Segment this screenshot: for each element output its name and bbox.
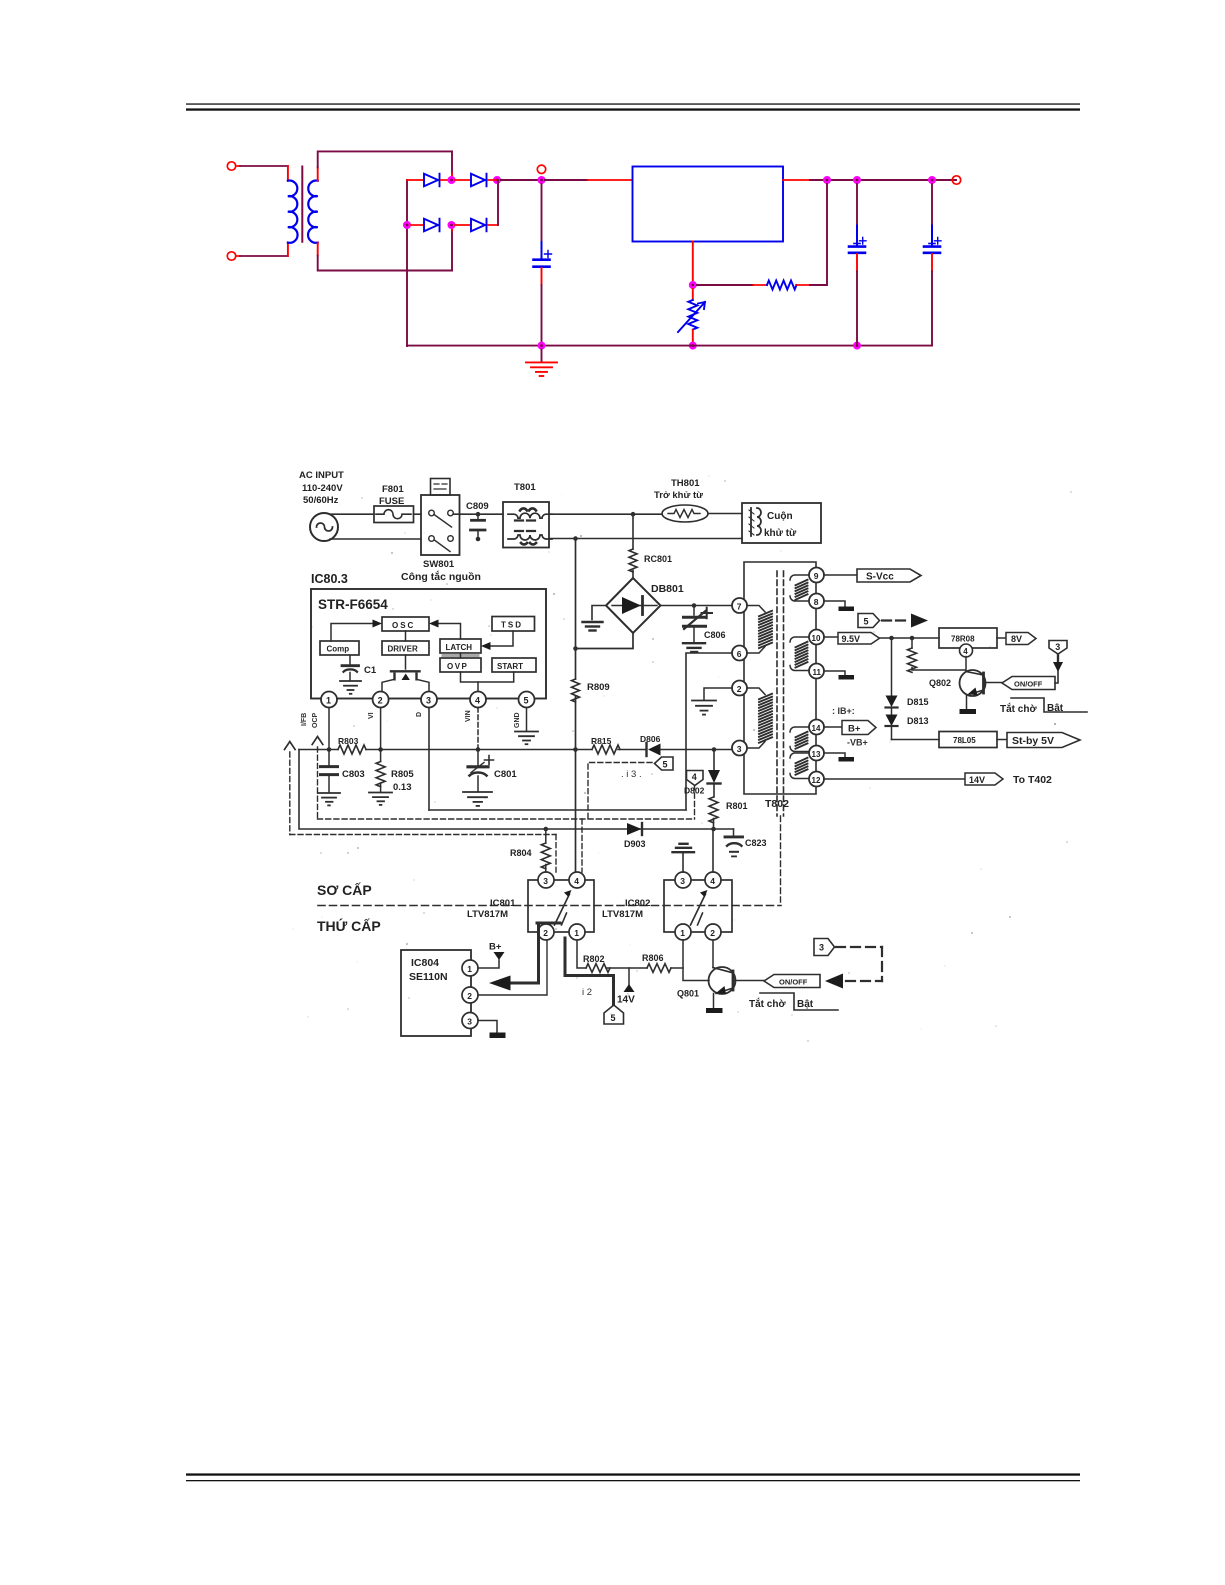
svg-text:3: 3	[819, 943, 824, 953]
label Cuon khu tu	[764, 511, 797, 539]
svg-text:D815: D815	[907, 697, 929, 707]
OVP box	[440, 658, 481, 672]
wire secondary top stub	[317, 167, 319, 180]
svg-text:TSD: TSD	[501, 621, 523, 630]
node dot	[823, 176, 831, 184]
transformer T1 secondary coil	[308, 181, 318, 243]
main feedback line y=749.5	[299, 749, 645, 751]
ground at C1	[340, 681, 361, 694]
wire pin1 down	[328, 708, 330, 750]
label IC801 LTV817M	[467, 898, 516, 920]
T802 winding pin10-pin11	[790, 637, 809, 671]
svg-text:4: 4	[475, 696, 480, 706]
capacitor C1 electrolytic after bridge	[534, 184, 552, 346]
solid loop bottom	[429, 809, 686, 811]
ground at T802 pin2	[692, 701, 716, 715]
node	[476, 512, 481, 517]
wire input top	[236, 165, 240, 167]
svg-text:8: 8	[814, 597, 819, 607]
wire fuse to switch	[414, 513, 422, 515]
ground at R805	[369, 793, 392, 805]
diode D4	[471, 219, 487, 232]
svg-text:C801: C801	[494, 769, 517, 780]
T802 pin 2	[732, 681, 747, 696]
diode D2	[471, 174, 487, 187]
label F801 FUSE	[379, 484, 404, 507]
potentiometer RV1	[678, 289, 705, 346]
svg-text:110-240V: 110-240V	[302, 483, 343, 494]
wire OVP to pin4	[461, 672, 479, 692]
bridge rectifier DB801	[606, 578, 661, 633]
svg-text:VIN: VIN	[465, 710, 472, 722]
Comp box	[320, 641, 359, 655]
degauss coil box Cuon khu tu	[742, 503, 821, 543]
IC801 pin 1	[569, 924, 585, 940]
T802 pin 3	[732, 741, 747, 756]
wire IC804 pin1 to B+ arrow	[478, 960, 499, 968]
wire IC801 pin1 to R802	[577, 941, 586, 968]
node dot pot bottom	[689, 342, 697, 350]
svg-text:2: 2	[378, 696, 383, 706]
callout 9.5V	[838, 633, 880, 645]
node	[573, 747, 578, 752]
resistor RC801	[629, 514, 637, 578]
wire main B vertical from AC bottom	[575, 539, 577, 680]
IC802 pin 3	[675, 872, 691, 888]
svg-text:9.5V: 9.5V	[842, 634, 861, 644]
pentagon 5 callout	[655, 757, 674, 770]
resistor R815	[592, 745, 620, 754]
gnd bar Q802	[960, 709, 977, 714]
svg-text:Q801: Q801	[677, 989, 699, 999]
svg-text:LTV817M: LTV817M	[602, 909, 643, 920]
wire	[441, 179, 451, 181]
wire input bottom	[236, 255, 240, 257]
node dot	[448, 176, 456, 184]
svg-text:khử từ: khử từ	[764, 528, 797, 539]
wire pin2 to ground	[704, 688, 732, 700]
resistor R vertical at 912	[908, 638, 966, 672]
T802 winding pin7-pin6	[747, 606, 772, 654]
IC804 pin 3	[462, 1013, 478, 1029]
IC801 pin 2	[538, 924, 554, 940]
svg-text:T801: T801	[514, 482, 536, 493]
svg-text:R803: R803	[338, 736, 359, 746]
IC803 STR-F6654 block	[311, 589, 546, 699]
wire bridge row1 left	[407, 179, 424, 181]
svg-text:R802: R802	[583, 954, 605, 964]
node	[712, 747, 717, 752]
IC802 internal arrow	[691, 890, 708, 925]
wire comp to OSC with arrow	[331, 624, 374, 642]
svg-text:C809: C809	[466, 501, 489, 512]
svg-text:-VB+: -VB+	[847, 738, 868, 748]
capacitor C809	[471, 514, 486, 539]
svg-text:ON/OFF: ON/OFF	[779, 978, 808, 987]
svg-text:14V: 14V	[617, 995, 635, 1006]
output node circle	[537, 165, 545, 173]
svg-text:R806: R806	[642, 953, 664, 963]
svg-text:LTV817M: LTV817M	[467, 909, 508, 920]
arrow down from 3	[1053, 655, 1063, 684]
svg-text:5: 5	[524, 696, 529, 706]
wire DB801 bottom to main B	[576, 633, 634, 649]
B+ arrow	[494, 952, 505, 960]
IC802 pin 4	[705, 872, 721, 888]
gnd bar pin13	[839, 757, 855, 762]
node	[327, 747, 332, 752]
svg-text:S-Vcc: S-Vcc	[866, 572, 894, 583]
svg-text:I/FB: I/FB	[301, 713, 308, 726]
svg-text:D903: D903	[624, 839, 646, 849]
capacitor C3 output	[924, 184, 941, 346]
callout St-by 5V	[997, 733, 1080, 748]
pentagon 5 callout top	[858, 614, 880, 628]
T802 winding pin14-pin13	[790, 727, 809, 752]
ground at C806	[683, 643, 705, 652]
wire switch to T801 top	[454, 513, 504, 515]
callout 14V	[965, 773, 1003, 785]
svg-text:AC INPUT: AC INPUT	[299, 470, 344, 481]
callout ONOFF	[1002, 677, 1055, 690]
label Tat cho / Bat bottom with step line	[749, 993, 838, 1010]
svg-text:Comp: Comp	[327, 645, 350, 654]
capacitor C801	[468, 750, 494, 792]
svg-text:11: 11	[813, 668, 822, 677]
diode D802	[708, 750, 721, 798]
optocoupler IC801 box	[528, 880, 594, 932]
gnd bar pin8	[839, 607, 855, 612]
IC801 pin 4	[569, 872, 585, 888]
wire resistor to rail	[796, 284, 810, 286]
svg-text:9: 9	[814, 571, 819, 581]
node	[910, 636, 915, 641]
IC804 pin 1	[462, 960, 478, 976]
terminal J3 output	[952, 176, 960, 184]
wire DB801 right to T802 pin7	[661, 605, 733, 607]
wire LATCH up to OSC with arrow	[437, 624, 461, 640]
svg-text:C823: C823	[745, 838, 767, 848]
resistor R805	[376, 750, 385, 793]
wire row1 to output	[488, 179, 497, 181]
ground at pin5	[515, 732, 538, 745]
svg-text:4: 4	[692, 772, 697, 782]
dashed arrow FB left	[285, 742, 557, 873]
wire down to IC801 pin4	[575, 750, 577, 873]
wire pin13 to gnd bar	[824, 753, 845, 757]
svg-text:OSC: OSC	[392, 621, 415, 630]
wire secondary bottom stub	[317, 243, 319, 256]
wire Q801 to ONOFF	[735, 980, 765, 982]
pentagon 3 bottom	[814, 939, 835, 956]
svg-text:VI: VI	[368, 712, 375, 719]
svg-text:OVP: OVP	[447, 662, 468, 671]
resistor R802	[586, 964, 610, 973]
svg-text:SW801: SW801	[423, 559, 455, 570]
svg-text:1: 1	[467, 964, 472, 974]
svg-text:1: 1	[326, 696, 331, 706]
transformer T1 primary coil	[288, 181, 298, 243]
wire pin14 to B+	[824, 726, 842, 728]
top double rule	[186, 103, 1080, 110]
wire secondary top to bridge node	[451, 151, 453, 173]
svg-text:Tắt chờ: Tắt chờ	[1000, 702, 1037, 715]
svg-text:ON/OFF: ON/OFF	[1014, 680, 1043, 689]
terminal J2 bottom input	[227, 252, 235, 260]
wire row2 right corner up	[488, 224, 498, 226]
pentagon 4 callout	[687, 771, 704, 786]
svg-text:50/60Hz: 50/60Hz	[303, 495, 339, 506]
pin 1 IC803	[321, 692, 337, 708]
wire R809 down to feedback line	[575, 697, 577, 750]
ground at C803	[318, 793, 340, 805]
T802 pin 9	[809, 568, 824, 583]
svg-text:1: 1	[680, 928, 685, 938]
node	[711, 827, 716, 832]
thick annotation wire with arrow to pin2	[489, 923, 560, 991]
svg-text:R801: R801	[726, 801, 748, 811]
thermistor TH801	[662, 505, 708, 522]
svg-text:Cuộn: Cuộn	[767, 511, 793, 522]
T802 winding pin9-pin8	[790, 575, 809, 601]
svg-text:Trở khử từ: Trở khử từ	[654, 490, 703, 501]
svg-text:R809: R809	[587, 682, 610, 693]
transformer T802 frame	[744, 562, 816, 794]
resistor R804	[541, 829, 550, 873]
dashed separator primary/secondary	[318, 905, 781, 907]
node dot	[928, 176, 936, 184]
wire R802 to R806	[606, 967, 647, 969]
svg-text:F801: F801	[382, 484, 404, 495]
node	[692, 603, 697, 608]
DRIVER box	[382, 641, 429, 655]
resistor R806	[647, 964, 671, 973]
terminal J1 top input	[227, 162, 235, 170]
svg-text:D813: D813	[907, 716, 929, 726]
svg-text:10: 10	[812, 634, 821, 643]
svg-text:GND: GND	[514, 712, 521, 728]
gnd bar Q801	[706, 1008, 723, 1013]
svg-text:Bật: Bật	[1047, 703, 1064, 714]
svg-text:IC802: IC802	[625, 898, 650, 909]
wire pin3 down (solid loop left side)	[428, 708, 430, 811]
svg-text:78R08: 78R08	[951, 635, 975, 644]
capacitor C1	[342, 666, 359, 681]
regulator U1 box	[633, 167, 784, 242]
svg-text:STR-F6654: STR-F6654	[318, 597, 388, 612]
callout S-Vcc	[857, 569, 921, 583]
dashed horizontal y=819	[318, 818, 695, 820]
ground chassis at DB801	[583, 622, 603, 631]
svg-text:THỨ CẤP: THỨ CẤP	[317, 917, 381, 934]
svg-text:5: 5	[864, 617, 869, 627]
wire pin12 to 14V	[824, 778, 965, 780]
pin labels rotated	[301, 710, 521, 728]
svg-text:R805: R805	[391, 769, 414, 780]
svg-text:R815: R815	[591, 736, 612, 746]
T802 pin 7	[732, 598, 747, 613]
callout ONOFF bottom	[764, 975, 820, 988]
svg-text:2: 2	[710, 928, 715, 938]
wire adj to feedback resistor	[697, 284, 753, 286]
wire IC802 pin2 to Q801	[712, 940, 714, 968]
svg-text:Q802: Q802	[929, 678, 951, 688]
diode D3	[424, 219, 440, 232]
svg-text:SE110N: SE110N	[409, 971, 448, 983]
T802 pin 14	[809, 720, 824, 735]
bottom rail	[407, 345, 932, 347]
svg-text:5: 5	[663, 760, 668, 770]
svg-text:1: 1	[574, 928, 579, 938]
IC802 pin 1	[675, 924, 691, 940]
svg-text:Tắt chờ: Tắt chờ	[749, 997, 786, 1010]
svg-text:3: 3	[426, 696, 431, 706]
node	[889, 636, 894, 641]
wire pin11 to gnd bar	[824, 671, 845, 675]
wire pin9 to S-Vcc	[824, 574, 857, 576]
diode D1	[424, 174, 440, 187]
svg-text:2: 2	[467, 991, 472, 1001]
wire TSD to LATCH with arrow	[489, 631, 513, 646]
svg-text:SƠ CẤP: SƠ CẤP	[317, 882, 372, 898]
fuse F801	[374, 506, 414, 523]
svg-text:START: START	[497, 662, 523, 671]
svg-text:IC80.3: IC80.3	[311, 572, 348, 586]
node	[476, 537, 481, 542]
svg-text:C1: C1	[364, 665, 377, 676]
node	[573, 536, 578, 541]
node dot	[493, 176, 501, 184]
wire LATCH-OVP	[460, 653, 462, 658]
pentagon 3 top right	[1049, 641, 1067, 655]
regulator 78L05 box	[939, 732, 997, 748]
wire IC802 pin4 up to R801 node	[712, 829, 714, 872]
svg-text:4: 4	[963, 647, 968, 656]
scan speckle noise	[293, 475, 1073, 1042]
svg-text:14: 14	[812, 724, 821, 733]
wire OSC-DRIVER	[405, 631, 407, 641]
svg-text:3: 3	[467, 1016, 472, 1026]
diode D806	[647, 743, 715, 756]
node dot	[448, 221, 456, 229]
svg-text:3: 3	[680, 876, 685, 886]
dashed route from pentagon 3	[836, 947, 882, 981]
T802 pin 6	[732, 646, 747, 661]
svg-text:D802: D802	[684, 786, 705, 796]
thick annotation wire to pentagon 5	[565, 938, 614, 1006]
svg-text:2: 2	[737, 684, 742, 694]
capacitor C823	[725, 829, 743, 856]
svg-text:4: 4	[710, 876, 715, 886]
wire to T802 pin3	[714, 749, 732, 751]
capacitor C806	[684, 606, 713, 643]
LATCH box	[440, 639, 481, 653]
wire T801 bottom out	[549, 538, 742, 540]
T802 pin 12	[809, 772, 824, 787]
diode D903	[627, 823, 642, 835]
label AC INPUT	[299, 470, 344, 506]
wire diode chain to 78L05	[892, 739, 940, 741]
wire IC804 pin2 to IC801 pin2	[478, 941, 547, 995]
svg-text:: IB+:: : IB+:	[832, 706, 855, 716]
label Tat cho / Bat with step line	[1000, 698, 1087, 715]
svg-text:. i 3 .: . i 3 .	[621, 769, 642, 780]
svg-text:i 2: i 2	[582, 987, 592, 998]
dashed net i3	[588, 763, 652, 820]
wire	[455, 179, 471, 181]
wire START to pin4	[478, 672, 514, 682]
svg-text:TH801: TH801	[671, 478, 700, 489]
mosfet Q in IC803	[382, 671, 429, 692]
pin 2 IC803	[373, 692, 389, 708]
wire pin8 to gnd bar	[824, 601, 845, 606]
IC804 pin 2	[462, 987, 478, 1003]
IC801 internal arrow	[555, 890, 572, 925]
ground above IC802 pin3	[673, 844, 695, 872]
pin 4 of 78R08	[960, 644, 973, 657]
IC802 pin 2	[705, 924, 721, 940]
gnd bar pin11	[839, 675, 855, 680]
node	[573, 646, 578, 651]
gnd bar IC804 pin3	[490, 1033, 506, 1039]
svg-text:R804: R804	[510, 848, 532, 858]
ground at C801	[463, 792, 492, 806]
thick arrow into ONOFF	[825, 974, 843, 989]
dashed arrow OCP	[312, 737, 323, 820]
pin 4 IC803	[470, 692, 486, 708]
IC804 box	[401, 950, 471, 1036]
optocoupler IC802 box	[664, 880, 732, 932]
wire regulator output	[783, 179, 810, 181]
T802 pin 8	[809, 594, 824, 609]
node dot gnd	[538, 342, 546, 350]
resistor R801	[709, 797, 718, 829]
shade under LATCH	[442, 654, 480, 658]
wire Q802 to ONOFF	[985, 682, 1002, 684]
svg-text:DRIVER: DRIVER	[388, 645, 418, 654]
svg-text:Bật: Bật	[797, 999, 814, 1010]
OSC box	[382, 617, 429, 631]
svg-text:13: 13	[812, 750, 821, 759]
label SW801	[401, 559, 481, 583]
switch SW801	[421, 479, 460, 556]
transistor Q801	[709, 967, 736, 1008]
bottom double rule	[186, 1473, 1080, 1481]
resistor R803	[338, 745, 366, 754]
svg-text:C803: C803	[342, 769, 365, 780]
svg-text:St-by 5V: St-by 5V	[1012, 735, 1054, 747]
svg-text:DB801: DB801	[651, 583, 684, 595]
svg-text:C806: C806	[704, 630, 726, 640]
wire	[455, 224, 471, 226]
callout B+	[842, 721, 876, 735]
wire T801 top out	[549, 513, 662, 515]
capacitor C2 output	[849, 184, 866, 346]
wire bridge left vertical	[406, 180, 408, 346]
svg-text:FUSE: FUSE	[379, 496, 404, 507]
wire to regulator	[545, 179, 588, 181]
regulator 78R08 box	[939, 628, 997, 648]
dashed vertical to pentagon4	[694, 785, 696, 819]
svg-text:OCP: OCP	[312, 713, 319, 729]
diode D815	[886, 638, 898, 708]
svg-text:4: 4	[574, 876, 579, 886]
wire DRIVER to mosfet	[405, 655, 407, 669]
TSD box	[492, 617, 535, 632]
node	[378, 747, 383, 752]
dashed arrow from 5	[882, 614, 928, 628]
label IC804 SE110N	[409, 957, 448, 983]
